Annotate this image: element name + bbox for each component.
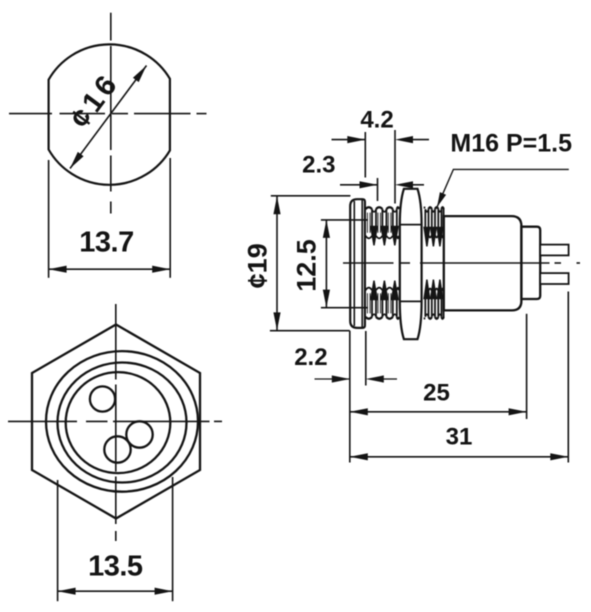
extension line 12.5 top — [321, 219, 368, 221]
thread group top-right — [424, 207, 444, 246]
dimension 2.3 — [340, 181, 424, 188]
extension line 12.5 bottom — [321, 307, 368, 309]
svg-text:M16 P=1.5: M16 P=1.5 — [450, 130, 572, 158]
dimension line 13.7 — [49, 266, 171, 273]
hexagon outline — [32, 325, 200, 519]
svg-text:4.2: 4.2 — [360, 107, 393, 134]
rear step — [521, 227, 540, 299]
centerline horizontal (top view) — [9, 113, 207, 115]
label phi19 — [242, 243, 272, 288]
dimension 2.2 — [315, 375, 398, 382]
extension line left 13.5 — [57, 480, 59, 601]
label 2.2 — [294, 344, 327, 371]
extension line 2.2 right — [365, 331, 367, 386]
connector body — [444, 216, 522, 310]
svg-text:31: 31 — [446, 424, 473, 451]
centerline vertical (front view) — [115, 304, 117, 541]
dimension 4.2 — [332, 136, 430, 143]
extension line right 13.7 — [169, 158, 171, 278]
svg-text:13.7: 13.7 — [79, 227, 133, 259]
extension line left 13.7 — [48, 160, 50, 278]
dimension 25 — [350, 408, 527, 415]
extension line right (4.2/2.3) — [394, 130, 396, 204]
extension line 2.3 — [377, 178, 379, 201]
thread group bottom-right — [424, 280, 444, 319]
svg-text:25: 25 — [423, 379, 450, 406]
svg-text:12.5: 12.5 — [291, 239, 321, 292]
pin hole B — [126, 421, 152, 447]
double-D cutout outline — [49, 44, 170, 184]
label M16 P=1.5 — [450, 130, 572, 158]
label 25 — [423, 379, 450, 406]
thread group top-left — [366, 207, 400, 245]
centerline horizontal (front view) — [8, 420, 222, 422]
extension line phi19 bottom — [270, 330, 350, 332]
label 31 — [446, 424, 473, 451]
extension line 4.2 left — [364, 132, 366, 178]
dimension line 13.5 — [58, 588, 173, 595]
label 2.3 — [302, 152, 335, 179]
diameter arrow phi16 — [70, 66, 147, 169]
pin hole A — [90, 386, 115, 411]
extension line 25 right — [526, 314, 528, 419]
hex nut outline — [400, 189, 422, 339]
extension line 31 right — [567, 292, 569, 463]
dimension phi19 — [273, 196, 280, 331]
label 12.5 — [291, 239, 321, 292]
flange outline — [350, 199, 365, 328]
svg-text:2.2: 2.2 — [294, 344, 327, 371]
extension line left (2.2/25/31) — [349, 331, 351, 463]
extension line phi19 top — [271, 195, 351, 197]
centerline vertical (top view) — [110, 13, 112, 214]
label 4.2 — [360, 107, 393, 134]
svg-text:13.5: 13.5 — [88, 551, 143, 583]
label phi16 — [64, 67, 126, 135]
leader M16 — [437, 169, 569, 207]
centerline horizontal (side view) — [343, 262, 580, 264]
inner circle — [66, 372, 171, 473]
terminal pin upper — [540, 245, 568, 256]
svg-text:¢16: ¢16 — [64, 67, 126, 135]
nut body fill — [400, 189, 422, 339]
label 13.7 — [79, 227, 133, 259]
dimension 31 — [350, 453, 569, 460]
label 13.5 — [88, 551, 143, 583]
middle circle — [58, 363, 187, 483]
outer circle — [46, 351, 198, 492]
thread group bottom-left — [366, 281, 400, 319]
pin hole C — [104, 436, 130, 462]
terminal pin lower — [540, 273, 568, 284]
dimension 12.5 — [323, 220, 330, 308]
extension line right 13.5 — [172, 477, 174, 601]
svg-text:¢19: ¢19 — [242, 243, 272, 288]
svg-text:2.3: 2.3 — [302, 152, 335, 179]
